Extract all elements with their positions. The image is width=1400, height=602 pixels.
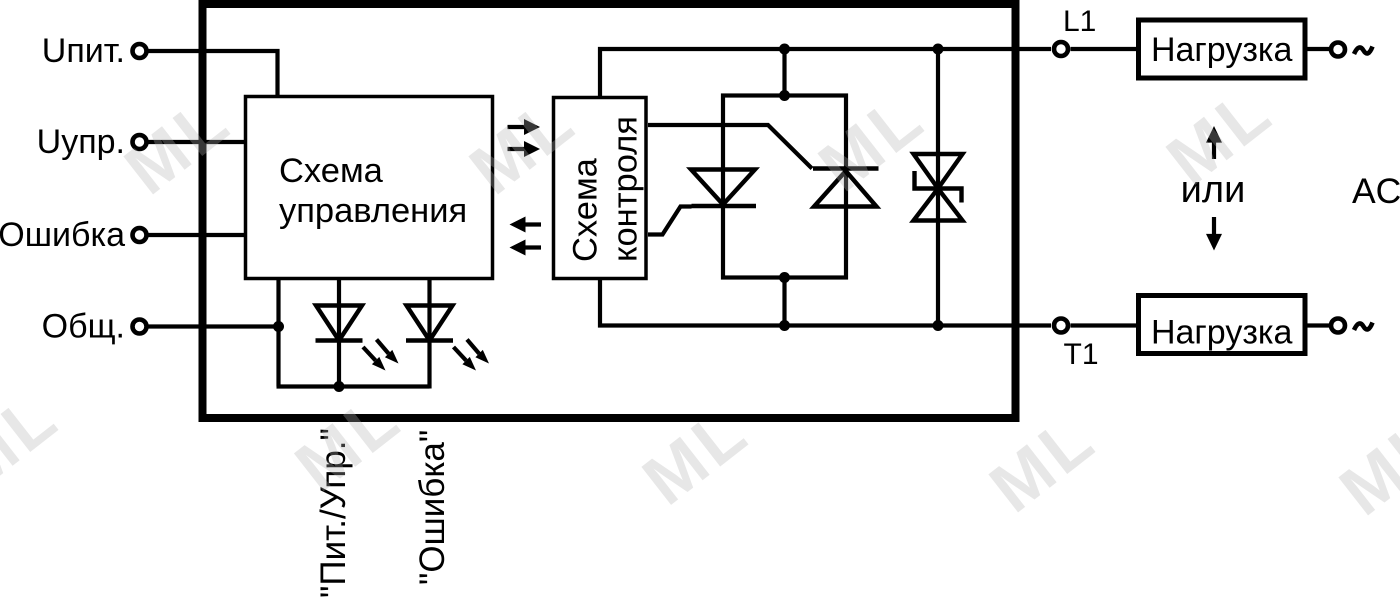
svg-text:ML: ML [0, 376, 73, 505]
svg-text:ML: ML [1153, 71, 1287, 200]
block Схема контроля [554, 98, 647, 279]
terminal T1 circle [1054, 319, 1068, 333]
LED Ошибка emission arrows [454, 340, 490, 371]
wire Uупр. to control block [147, 140, 247, 144]
svg-text:Схема: Схема [567, 157, 605, 262]
svg-text:Uпит.: Uпит. [42, 32, 125, 70]
svg-text:Ошибка: Ошибка [0, 216, 125, 254]
svg-text:Нагрузка: Нагрузка [1151, 31, 1293, 69]
LED Пит./Упр. emission arrows [363, 340, 399, 371]
junction dot top rail varistor tap [933, 44, 944, 55]
terminal Uупр. circle [133, 135, 147, 149]
svg-text:ML: ML [629, 391, 763, 520]
AC source top circle [1331, 43, 1345, 57]
wire monitor block to top rail L1 [600, 49, 1051, 98]
block label Схема управления [279, 152, 467, 230]
svg-text:T1: T1 [1064, 338, 1099, 371]
LED Ошибка branch wire [427, 279, 431, 389]
terminal Общ. circle [133, 320, 147, 334]
SCR left (down) symbol [691, 170, 756, 207]
wire top rail right of L1 terminal [1071, 47, 1139, 51]
junction dot SCR loop bottom [779, 272, 790, 283]
block Схема управления [246, 97, 493, 279]
SCR left gate wire [648, 207, 692, 235]
wire Общ. to LED branch [147, 324, 279, 328]
svg-text:"Ошибка": "Ошибка" [413, 430, 452, 585]
LED Пит./Упр. symbol [316, 306, 363, 341]
block label Схема контроля [567, 116, 645, 262]
svg-text:L1: L1 [1063, 5, 1096, 38]
svg-text:Uупр.: Uупр. [37, 123, 125, 161]
AC source bottom tilde [1354, 323, 1373, 331]
svg-text:ML: ML [281, 377, 415, 506]
load box bottom [1139, 296, 1306, 354]
terminal Ошибка circle [133, 228, 147, 242]
signal arrows control to monitor [508, 119, 541, 157]
svg-text:Общ.: Общ. [42, 308, 125, 346]
svg-text:AC: AC [1352, 171, 1400, 211]
AC source bottom circle [1331, 319, 1345, 333]
wire SCR loop to bottom rail [782, 278, 786, 326]
junction dot top rail SCR tap [779, 44, 790, 55]
arrow up [1206, 126, 1222, 159]
signal arrows monitor to control [510, 217, 542, 256]
SCR right (up) symbol [813, 169, 879, 207]
LED Ошибка symbol [406, 306, 453, 341]
AC source top tilde [1354, 47, 1373, 55]
wire bottom rail right of T1 terminal [1071, 323, 1139, 327]
svg-text:ML: ML [111, 80, 245, 209]
junction dot bottom rail SCR tap [779, 320, 790, 331]
relay outline box [203, 4, 1016, 418]
varistor branch wire [936, 49, 940, 326]
arrow down [1206, 217, 1222, 251]
LED rail wire [277, 384, 430, 388]
wire top rail to SCR loop [782, 49, 786, 96]
svg-text:ML: ML [1326, 401, 1400, 530]
junction dot SCR loop top [779, 90, 790, 101]
wire monitor block to bottom rail T1 [600, 279, 1051, 326]
wire load box top to AC source [1305, 47, 1330, 51]
SCR right gate wire [648, 125, 812, 169]
terminal Uпит. circle [133, 44, 147, 58]
wire Uпит. to control block top [147, 51, 278, 97]
svg-text:Нагрузка: Нагрузка [1151, 314, 1293, 352]
load box top [1139, 20, 1306, 78]
junction dot LED rail [334, 381, 345, 392]
terminal L1 circle [1054, 42, 1068, 56]
LED Пит./Упр. branch wire [337, 279, 341, 387]
svg-text:Схема: Схема [279, 152, 384, 190]
varistor symbol [914, 154, 963, 221]
junction dot Общ. [273, 321, 284, 332]
junction dot bottom rail varistor tap [933, 320, 944, 331]
wire control block bottom to LED rail [276, 279, 280, 387]
svg-text:контроля: контроля [607, 116, 645, 262]
wire Ошибка to control block [147, 233, 247, 237]
SCR pair loop wire [723, 96, 846, 278]
wire load box bottom to AC source [1305, 323, 1330, 327]
svg-text:управления: управления [279, 192, 467, 230]
